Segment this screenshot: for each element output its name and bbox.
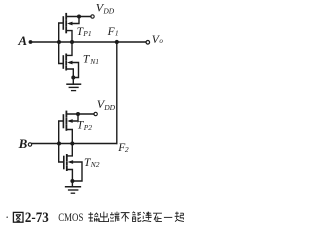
svg-text:A: A xyxy=(17,33,27,48)
svg-text:2: 2 xyxy=(125,145,129,154)
caption char 图 (bold) xyxy=(6,216,8,218)
node: drain junction on output line G2 xyxy=(70,142,74,146)
caption char 在 xyxy=(153,213,162,221)
wire: TP1 drain stub down to output xyxy=(67,31,72,42)
node: drain junction on output line G1 xyxy=(70,40,74,44)
node F1 junction xyxy=(115,40,119,44)
power terminal VDD 1 (open circle) xyxy=(91,15,94,18)
transistor TP1 channel segments xyxy=(65,14,67,19)
transistor TP1 gate bar xyxy=(62,17,64,29)
transistor TN2 gate bar xyxy=(63,157,65,169)
ground 2 xyxy=(71,181,73,187)
transistor TP2 gate bar xyxy=(62,115,64,128)
svg-text:P1: P1 xyxy=(82,29,91,38)
wire: TN1 source stub down xyxy=(67,69,74,78)
transistor TN2 bulk arrow xyxy=(68,160,74,164)
svg-text:B: B xyxy=(18,136,28,151)
wire: TP2 bulk lead to VDD xyxy=(70,114,78,121)
transistor TN2 channel segments xyxy=(66,155,68,160)
wire: VDD rail of gate 2 xyxy=(66,113,94,115)
wire: TP2 drain stub down to output xyxy=(67,130,72,144)
node: TN2 source junction xyxy=(70,179,74,183)
caption char 不 xyxy=(121,213,130,222)
wire: TN1 drain stub up to output xyxy=(67,42,72,55)
input terminal A dot xyxy=(29,40,33,44)
transistor TP1 bulk arrow xyxy=(67,22,73,26)
wire: input/output line of gate 2 (B to F2) xyxy=(32,143,117,145)
transistor TN1 bulk arrow xyxy=(67,61,73,65)
svg-text:DD: DD xyxy=(103,103,115,112)
transistor TP2 bulk arrow xyxy=(67,119,73,123)
transistor TP2 channel segments xyxy=(65,112,67,117)
ground 1 xyxy=(72,78,74,85)
wire: common output vertical F1 to F2 xyxy=(116,42,118,144)
svg-text:CMOS: CMOS xyxy=(58,210,83,224)
node: TN1 source junction xyxy=(71,76,75,80)
svg-text:P2: P2 xyxy=(83,123,93,132)
output terminal Vo (open circle) xyxy=(146,41,150,45)
svg-text:2-73: 2-73 xyxy=(25,210,49,226)
wire: TN2 bulk lead down to source xyxy=(71,162,82,181)
power terminal VDD 2 (open circle) xyxy=(94,112,97,115)
wire: TP1 bulk lead to VDD xyxy=(70,17,79,24)
wire: gate bus G2 up to TP2 xyxy=(59,121,63,144)
wire: TN2 source stub down xyxy=(67,170,72,182)
wire: TN2 drain stub up to output xyxy=(67,144,72,156)
caption char 起 xyxy=(175,212,184,222)
wire: gate bus G2 down to TN2 xyxy=(59,144,63,163)
svg-text:N2: N2 xyxy=(90,160,100,169)
svg-text:o: o xyxy=(159,37,163,45)
wire: input/output line of gate 1 (A to Vo) xyxy=(32,41,146,43)
caption char 输 xyxy=(88,212,98,221)
node: gate junction G2 xyxy=(57,142,61,146)
wire: gate bus G1 down to TN1 xyxy=(59,42,63,64)
input terminal B (open circle) xyxy=(28,143,31,146)
node: TP2 bulk/source tie on VDD rail xyxy=(76,112,80,116)
svg-text:DD: DD xyxy=(102,6,114,15)
wire: gate bus G1 up to TP1 xyxy=(59,23,63,42)
wire: TN1 bulk lead down to source xyxy=(70,63,79,78)
caption char 端 xyxy=(110,212,119,222)
svg-text:1: 1 xyxy=(115,29,119,38)
caption char 一 xyxy=(164,216,172,218)
caption char 能 xyxy=(132,212,140,222)
node: TP1 bulk/source tie on VDD rail xyxy=(77,15,81,19)
caption: 图 2-73 CMOS 输出端不能连在一起 xyxy=(6,212,23,222)
transistor TN1 gate bar xyxy=(62,56,64,68)
caption char 连 xyxy=(142,212,151,222)
node: gate junction G1 xyxy=(57,40,61,44)
svg-text:N1: N1 xyxy=(89,57,99,66)
wire: VDD rail of gate 1 xyxy=(66,16,91,18)
transistor TN1 channel segments xyxy=(65,54,67,59)
caption char 出 xyxy=(99,212,108,222)
